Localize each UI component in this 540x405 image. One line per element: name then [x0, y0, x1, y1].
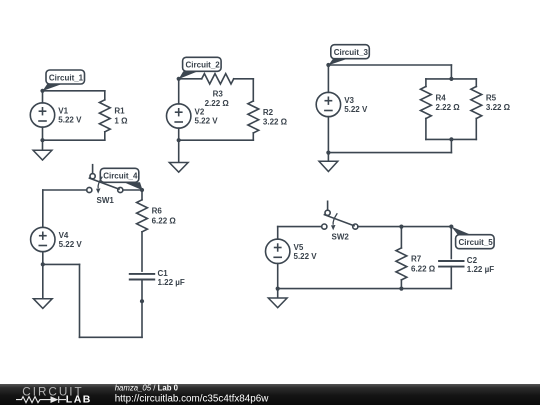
wire V5 top to switch [278, 226, 322, 228]
wire bottom rail circuit 1 [43, 139, 105, 141]
svg-text:R4: R4 [436, 93, 447, 102]
switch SW2 [322, 201, 358, 241]
svg-text:6.22 Ω: 6.22 Ω [152, 216, 177, 225]
svg-text:V1: V1 [58, 107, 68, 116]
svg-text:R2: R2 [263, 108, 274, 117]
svg-text:3.22 Ω: 3.22 Ω [263, 118, 288, 127]
svg-text:Circuit_4: Circuit_4 [103, 172, 138, 181]
wire C1 bottom lead [141, 280, 143, 338]
flag Circuit_5 [451, 227, 494, 249]
capacitor C2 [438, 256, 494, 274]
wire bottom return rail circuit 3 [328, 152, 451, 154]
wire bottom rail circuit 4 [80, 336, 143, 338]
svg-text:R1: R1 [114, 107, 125, 116]
logo resistor-diode squiggle [16, 396, 66, 403]
svg-text:Circuit_3: Circuit_3 [334, 48, 369, 57]
wire V5 top lead [277, 227, 279, 240]
voltage source V5 [266, 239, 318, 263]
wire V5 bottom lead [277, 264, 279, 289]
footer bar [0, 384, 540, 405]
flag Circuit_1 [43, 70, 85, 91]
voltage source V3 [316, 92, 368, 116]
ground circuit 4 [33, 264, 52, 308]
svg-text:Circuit_5: Circuit_5 [459, 238, 494, 247]
svg-text:R5: R5 [486, 93, 497, 102]
svg-text:LAB: LAB [66, 393, 92, 405]
svg-text:V3: V3 [344, 96, 354, 105]
wire V1 top lead [42, 91, 44, 103]
wire parallel block top rail [426, 78, 476, 80]
svg-text:V4: V4 [59, 231, 69, 240]
node below V5 [276, 287, 280, 291]
svg-text:2.22 Ω: 2.22 Ω [436, 103, 461, 112]
node R7 top junction [399, 225, 403, 229]
voltage source V2 [167, 104, 219, 128]
svg-text:R7: R7 [411, 255, 422, 264]
resistor R1 [99, 91, 128, 140]
wire V2 bottom lead [178, 128, 180, 140]
wire top rail circuit 1 [43, 90, 105, 92]
svg-text:5.22 V: 5.22 V [294, 252, 318, 261]
switch SW1 [87, 165, 123, 205]
wire C2 top lead [450, 227, 452, 259]
wire V3 top lead [327, 65, 329, 92]
svg-text:6.22 Ω: 6.22 Ω [411, 265, 436, 274]
wire C2 bottom lead [450, 267, 452, 289]
node R7 bottom junction [399, 287, 403, 291]
capacitor C1 [129, 269, 185, 287]
resistor R4 [421, 79, 461, 139]
wire switch left rail circuit 4 [43, 189, 87, 191]
wire V3 bottom lead [327, 117, 329, 153]
wire bottom left riser [79, 264, 81, 337]
node block top junction [449, 77, 453, 81]
node block bottom junction [449, 137, 453, 141]
wire switch right to node [123, 189, 142, 191]
svg-text:V5: V5 [294, 243, 304, 252]
resistor R3 [202, 74, 254, 109]
svg-text:R6: R6 [152, 207, 163, 216]
node bottom circuit 3 [326, 151, 330, 155]
svg-text:SW1: SW1 [97, 196, 115, 205]
ground circuit 1 [33, 140, 52, 160]
resistor R7 [396, 227, 436, 289]
svg-text:C1: C1 [158, 269, 169, 278]
node top circuit 3 [326, 63, 330, 67]
wire top rail circuit 3 [328, 64, 451, 66]
svg-text:2.22 Ω: 2.22 Ω [205, 99, 230, 108]
node bottom circuit 1 [40, 138, 44, 142]
resistor R5 [471, 79, 511, 139]
flag Circuit_3 [328, 45, 369, 65]
wire switch right to C2 corner [358, 226, 451, 228]
ground circuit 5 [268, 289, 287, 308]
svg-text:1 Ω: 1 Ω [114, 116, 128, 125]
node below V4 [41, 262, 45, 266]
ground circuit 2 [169, 140, 188, 172]
wire top rail left circuit 2 [179, 78, 202, 80]
node top circuit 1 [40, 89, 44, 93]
wire V2 top lead [178, 79, 180, 104]
svg-text:1.22 µF: 1.22 µF [467, 265, 494, 274]
wire V4 node to riser [43, 263, 80, 265]
svg-text:5.22 V: 5.22 V [59, 240, 83, 249]
flag Circuit_2 [179, 57, 221, 79]
svg-text:C2: C2 [467, 256, 478, 265]
svg-text:V2: V2 [195, 108, 205, 117]
svg-text:SW2: SW2 [332, 233, 350, 242]
node R6 top / flag attach [140, 188, 144, 192]
flag Circuit_4 [100, 168, 142, 190]
ground circuit 3 [319, 153, 338, 172]
svg-text:1.22 µF: 1.22 µF [158, 278, 185, 287]
node top circuit 2 [177, 77, 181, 81]
wire block bottom to return [450, 139, 452, 152]
resistor R6 [137, 190, 177, 271]
svg-text:hamza_05 / Lab 0: hamza_05 / Lab 0 [115, 384, 179, 393]
wire left down to V4 [42, 190, 44, 227]
wire V4 bottom lead [42, 252, 44, 265]
wire parallel block bottom rail [426, 138, 476, 140]
svg-text:http://circuitlab.com/c35c4tfx: http://circuitlab.com/c35c4tfx84p6w [115, 393, 270, 404]
svg-text:3.22 Ω: 3.22 Ω [486, 103, 511, 112]
wire V1 bottom lead [42, 127, 44, 140]
node C1 bottom [140, 299, 144, 303]
voltage source V1 [30, 103, 82, 127]
svg-text:Circuit_2: Circuit_2 [186, 61, 221, 70]
node bottom circuit 2 [177, 138, 181, 142]
node C2 top / flag attach [449, 225, 453, 229]
svg-text:5.22 V: 5.22 V [344, 105, 368, 114]
svg-text:5.22 V: 5.22 V [195, 117, 219, 126]
svg-text:Circuit_1: Circuit_1 [49, 73, 84, 82]
wire feed down to parallel block [450, 65, 452, 79]
voltage source V4 [31, 227, 83, 251]
svg-text:5.22 V: 5.22 V [58, 116, 82, 125]
wire bottom rail circuit 5 [278, 288, 452, 290]
wire bottom rail circuit 2 [179, 139, 254, 141]
svg-text:R3: R3 [213, 90, 224, 99]
resistor R2 [248, 79, 288, 140]
